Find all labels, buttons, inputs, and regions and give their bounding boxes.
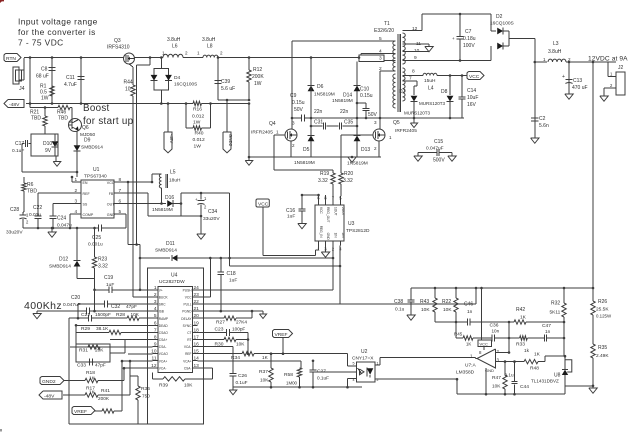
svg-text:10n: 10n: [492, 329, 500, 334]
svg-text:L3: L3: [553, 41, 559, 47]
svg-text:0.001u: 0.001u: [88, 242, 103, 248]
svg-text:BUCK: BUCK: [159, 295, 169, 299]
svg-text:C22: C22: [33, 205, 42, 211]
svg-text:1: 1: [543, 57, 546, 62]
svg-text:2: 2: [377, 378, 379, 382]
svg-text:Q3: Q3: [114, 38, 121, 44]
svg-text:5.6 uF: 5.6 uF: [221, 86, 235, 92]
svg-text:-48V: -48V: [9, 102, 20, 108]
svg-text:CSA-: CSA-: [184, 366, 192, 370]
svg-text:CT: CT: [187, 331, 191, 335]
svg-text:R6: R6: [27, 182, 34, 188]
svg-text:1W: 1W: [194, 144, 202, 150]
svg-text:CSAO: CSAO: [159, 331, 169, 335]
svg-text:TBD: TBD: [31, 116, 41, 122]
svg-text:18uH: 18uH: [169, 178, 181, 184]
svg-text:VCC: VCC: [319, 207, 323, 214]
svg-text:LM358D: LM358D: [456, 370, 475, 376]
svg-text:R12: R12: [253, 67, 262, 73]
svg-text:C31: C31: [314, 120, 323, 126]
svg-text:1N5819M: 1N5819M: [294, 160, 315, 166]
svg-text:12: 12: [412, 26, 418, 32]
svg-text:Boost: Boost: [83, 103, 110, 114]
svg-text:T1: T1: [384, 21, 390, 27]
svg-text:R40: R40: [195, 131, 204, 137]
svg-text:1uF: 1uF: [229, 278, 237, 284]
svg-text:D4: D4: [174, 75, 181, 81]
svg-text:0.012: 0.012: [193, 137, 206, 143]
svg-text:1N5819M: 1N5819M: [314, 92, 335, 98]
svg-text:J2: J2: [618, 65, 624, 71]
svg-text:0.15u: 0.15u: [292, 100, 305, 106]
svg-text:VCC: VCC: [480, 341, 489, 346]
svg-text:10K: 10K: [131, 312, 140, 317]
svg-text:C27: C27: [317, 369, 326, 375]
svg-text:10K: 10K: [421, 307, 430, 313]
svg-text:DELAY: DELAY: [181, 317, 192, 321]
svg-text:0.047uF: 0.047uF: [426, 146, 444, 152]
svg-text:0.012: 0.012: [192, 114, 205, 120]
svg-text:for start up: for start up: [83, 116, 134, 127]
svg-text:0.047uF: 0.047uF: [63, 302, 81, 308]
svg-text:50V: 50V: [368, 112, 378, 118]
svg-text:C38: C38: [394, 299, 403, 305]
svg-text:U1: U1: [93, 167, 100, 173]
svg-text:SS: SS: [83, 202, 88, 206]
svg-text:VCA+: VCA+: [183, 359, 192, 363]
svg-text:SMBD914: SMBD914: [81, 145, 103, 151]
svg-text:U4: U4: [171, 273, 178, 279]
svg-text:5.6n: 5.6n: [539, 123, 549, 129]
svg-text:TL1431DBVZ: TL1431DBVZ: [531, 379, 559, 384]
svg-text:10K: 10K: [443, 307, 452, 313]
svg-text:4: 4: [154, 306, 157, 312]
svg-text:3.32: 3.32: [343, 178, 353, 184]
svg-text:for the converter is: for the converter is: [18, 27, 96, 37]
svg-text:6: 6: [154, 320, 157, 326]
svg-text:R28: R28: [116, 312, 125, 318]
svg-text:VCC: VCC: [107, 181, 115, 185]
svg-text:GND2: GND2: [228, 134, 233, 147]
svg-text:REG_OUT: REG_OUT: [326, 207, 330, 222]
svg-text:0.1uF: 0.1uF: [236, 380, 248, 385]
svg-text:C9: C9: [290, 93, 297, 99]
svg-text:9: 9: [154, 342, 157, 348]
svg-text:UC2827DW: UC2827DW: [159, 279, 185, 285]
svg-text:U3: U3: [348, 221, 355, 227]
svg-text:27K4: 27K4: [236, 320, 247, 325]
svg-text:TBD: TBD: [27, 189, 37, 195]
svg-text:C2: C2: [539, 116, 546, 122]
svg-text:RTN: RTN: [6, 56, 16, 62]
svg-text:0.1u: 0.1u: [395, 307, 405, 313]
svg-text:C34: C34: [208, 209, 217, 215]
svg-text:19: 19: [194, 320, 200, 326]
svg-text:C15: C15: [434, 139, 443, 145]
svg-text:1K: 1K: [89, 376, 96, 381]
svg-text:2IN: 2IN: [341, 233, 345, 239]
svg-text:IRFS4310: IRFS4310: [107, 45, 130, 51]
svg-text:E32/6/20: E32/6/20: [374, 28, 394, 34]
svg-text:5: 5: [119, 209, 122, 214]
svg-text:3.8uH: 3.8uH: [167, 37, 181, 43]
svg-text:L4: L4: [428, 86, 434, 92]
svg-text:1K: 1K: [89, 390, 96, 395]
svg-text:R23: R23: [98, 257, 107, 263]
svg-text:SMBD914: SMBD914: [155, 248, 177, 254]
svg-text:8: 8: [412, 69, 415, 75]
svg-text:GND2: GND2: [42, 379, 56, 385]
svg-text:100V: 100V: [463, 43, 475, 49]
svg-text:2: 2: [220, 51, 223, 56]
svg-text:C11: C11: [66, 75, 75, 81]
svg-text:+: +: [452, 36, 455, 41]
svg-text:D5: D5: [303, 147, 310, 153]
svg-text:R58: R58: [284, 372, 293, 378]
svg-text:5: 5: [154, 313, 157, 319]
svg-text:R43: R43: [420, 299, 429, 305]
svg-text:68 uF: 68 uF: [36, 74, 49, 80]
svg-text:SYNC: SYNC: [183, 324, 193, 328]
svg-text:10uF: 10uF: [467, 95, 478, 101]
svg-text:50V: 50V: [294, 107, 304, 113]
svg-text:D12: D12: [59, 257, 68, 263]
svg-text:VREF: VREF: [74, 409, 87, 415]
svg-text:750: 750: [142, 394, 150, 399]
svg-text:3.8uH: 3.8uH: [202, 37, 216, 43]
svg-text:1: 1: [197, 51, 200, 56]
svg-text:1N5819M: 1N5819M: [332, 98, 353, 104]
svg-text:3: 3: [154, 299, 157, 305]
svg-text:1: 1: [377, 362, 379, 366]
svg-text:5K11: 5K11: [550, 310, 561, 316]
svg-text:15uH: 15uH: [424, 78, 436, 84]
svg-text:7: 7: [119, 188, 122, 193]
svg-text:3: 3: [374, 120, 377, 125]
svg-text:2: 2: [185, 51, 188, 56]
svg-text:C28: C28: [10, 207, 19, 213]
svg-text:J4: J4: [19, 86, 25, 92]
svg-text:L8: L8: [207, 44, 213, 50]
svg-text:D8: D8: [441, 89, 448, 95]
svg-text:D14: D14: [343, 93, 352, 99]
svg-text:C39: C39: [221, 79, 230, 85]
svg-text:0.1u: 0.1u: [505, 373, 515, 378]
svg-text:1: 1: [276, 130, 279, 135]
svg-text:33u20V: 33u20V: [6, 230, 23, 236]
svg-text:1uF: 1uF: [106, 282, 114, 288]
svg-text:1W: 1W: [254, 81, 262, 87]
svg-text:1W: 1W: [41, 96, 49, 102]
svg-text:R20: R20: [344, 171, 353, 177]
svg-text:25.5K: 25.5K: [596, 307, 609, 313]
svg-text:OUT: OUT: [107, 202, 115, 206]
svg-text:4: 4: [353, 378, 355, 382]
svg-text:16CQ100S: 16CQ100S: [490, 21, 514, 27]
svg-text:GND: GND: [326, 233, 330, 241]
svg-text:L6: L6: [172, 44, 178, 50]
svg-text:16V: 16V: [467, 102, 477, 108]
svg-text:R37: R37: [259, 369, 268, 375]
svg-text:5: 5: [353, 362, 355, 366]
svg-text:1M00: 1M00: [286, 381, 298, 386]
svg-text:R31: R31: [79, 348, 88, 354]
svg-text:38.1K: 38.1K: [96, 326, 109, 331]
svg-text:2: 2: [75, 188, 78, 193]
svg-text:1: 1: [389, 135, 392, 140]
svg-text:Input voltage range: Input voltage range: [18, 17, 98, 27]
svg-text:3.8uH: 3.8uH: [548, 49, 562, 55]
svg-text:CSA+: CSA+: [159, 338, 168, 342]
svg-text:D9: D9: [84, 138, 91, 144]
svg-text:EN: EN: [83, 181, 88, 185]
svg-text:C10: C10: [360, 87, 369, 93]
svg-text:VCC: VCC: [469, 74, 480, 80]
svg-text:REF: REF: [185, 352, 191, 356]
svg-text:0.15u: 0.15u: [360, 93, 373, 99]
svg-text:3: 3: [75, 199, 78, 204]
svg-text:3: 3: [379, 56, 382, 62]
svg-text:PUSH: PUSH: [183, 288, 193, 292]
svg-text:4.7uF: 4.7uF: [64, 82, 77, 88]
svg-text:IRFR2405: IRFR2405: [395, 128, 417, 134]
svg-text:RT: RT: [187, 338, 191, 342]
svg-text:D6: D6: [317, 84, 324, 90]
svg-text:C46: C46: [464, 302, 473, 308]
svg-text:400Khz: 400Khz: [24, 300, 62, 312]
svg-text:8: 8: [119, 177, 122, 182]
svg-text:R47: R47: [492, 375, 501, 381]
svg-text:0.01u: 0.01u: [29, 212, 41, 218]
svg-text:RAMP: RAMP: [159, 317, 168, 321]
svg-text:47pF: 47pF: [95, 363, 106, 368]
svg-text:MURS120T3: MURS120T3: [404, 111, 431, 116]
svg-text:R35: R35: [598, 345, 607, 351]
svg-text:+: +: [195, 197, 198, 202]
svg-text:1N5819M: 1N5819M: [347, 161, 368, 167]
svg-text:10K: 10K: [184, 383, 193, 388]
svg-text:20K: 20K: [95, 348, 104, 353]
svg-text:C7: C7: [465, 29, 472, 35]
svg-text:R19: R19: [320, 171, 329, 177]
svg-text:1: 1: [75, 177, 78, 182]
svg-text:2: 2: [154, 292, 157, 298]
svg-text:1K: 1K: [262, 355, 269, 360]
svg-text:200K: 200K: [252, 74, 264, 80]
svg-text:500V: 500V: [433, 158, 445, 164]
svg-text:9V: 9V: [45, 148, 52, 154]
svg-text:C23: C23: [215, 327, 224, 333]
svg-text:R32: R32: [551, 301, 560, 307]
svg-text:REF: REF: [83, 192, 91, 196]
svg-text:VCA-: VCA-: [184, 345, 192, 349]
svg-text:CNY17=X: CNY17=X: [352, 356, 374, 362]
svg-text:47pF: 47pF: [126, 304, 137, 310]
svg-text:0.1uF: 0.1uF: [317, 376, 329, 381]
svg-text:16CQ100S: 16CQ100S: [174, 82, 197, 87]
svg-text:3.32: 3.32: [98, 264, 108, 270]
svg-text:MURS120T3: MURS120T3: [419, 101, 446, 106]
svg-text:C14: C14: [467, 88, 476, 94]
svg-text:1IN: 1IN: [334, 233, 338, 239]
svg-text:7: 7: [154, 327, 157, 333]
svg-text:TBD: TBD: [58, 116, 68, 122]
svg-text:4: 4: [75, 209, 78, 214]
svg-text:C33: C33: [77, 363, 86, 369]
svg-text:R44: R44: [124, 80, 133, 86]
svg-text:R39: R39: [159, 383, 168, 389]
svg-text:IRFR2405: IRFR2405: [251, 130, 273, 136]
svg-text:R29: R29: [81, 326, 90, 332]
svg-text:REG_IN: REG_IN: [319, 226, 323, 239]
svg-text:C32: C32: [111, 304, 120, 310]
svg-text:R16: R16: [193, 107, 202, 113]
svg-text:R33: R33: [516, 342, 525, 348]
svg-text:C13: C13: [573, 78, 582, 84]
svg-text:22n: 22n: [340, 109, 349, 115]
svg-text:SRC: SRC: [159, 303, 166, 307]
svg-text:VCC: VCC: [258, 201, 269, 207]
svg-text:C26: C26: [238, 373, 247, 379]
svg-text:DEAD: DEAD: [159, 324, 169, 328]
svg-text:C16: C16: [286, 208, 295, 214]
svg-text:1n: 1n: [545, 329, 551, 334]
svg-text:470 uF: 470 uF: [572, 85, 588, 91]
svg-text:SMBD914: SMBD914: [49, 264, 71, 270]
svg-text:C19: C19: [104, 275, 113, 281]
svg-text:VCA+: VCA+: [159, 359, 168, 363]
svg-text:TPS2812D: TPS2812D: [346, 228, 370, 234]
svg-text:D7: D7: [399, 89, 406, 95]
svg-text:+: +: [562, 74, 565, 80]
svg-text:TPS67340: TPS67340: [84, 174, 107, 180]
svg-text:ISB: ISB: [159, 310, 164, 314]
svg-text:FB: FB: [109, 192, 114, 196]
svg-text:C18: C18: [227, 271, 236, 277]
svg-text:Q6: Q6: [82, 125, 89, 131]
svg-text:PULL: PULL: [184, 303, 192, 307]
svg-text:R26: R26: [598, 299, 607, 305]
svg-text:U7:A: U7:A: [465, 363, 476, 369]
svg-text:10K: 10K: [260, 378, 269, 383]
svg-text:COMP: COMP: [83, 213, 94, 217]
svg-text:0.18u: 0.18u: [463, 36, 476, 42]
svg-text:VCAO: VCAO: [159, 352, 169, 356]
svg-text:R42: R42: [516, 307, 525, 313]
svg-text:2: 2: [374, 146, 377, 151]
svg-text:33u20V: 33u20V: [203, 216, 220, 222]
svg-text:D11: D11: [166, 241, 175, 247]
svg-text:GND: GND: [107, 213, 115, 217]
svg-text:-48V: -48V: [169, 134, 174, 143]
svg-text:1W: 1W: [193, 120, 201, 126]
svg-text:6: 6: [119, 199, 122, 204]
svg-text:1OUT: 1OUT: [334, 207, 338, 216]
svg-text:100pF: 100pF: [232, 327, 245, 332]
svg-text:R27: R27: [216, 320, 225, 326]
svg-text:200K: 200K: [98, 396, 110, 401]
svg-text:D10: D10: [43, 141, 52, 147]
svg-text:3.32: 3.32: [318, 178, 328, 184]
svg-text:R36: R36: [141, 386, 150, 392]
svg-text:1k: 1k: [524, 348, 530, 353]
svg-text:10K: 10K: [236, 342, 245, 347]
svg-text:1K: 1K: [520, 315, 527, 321]
svg-text:10: 10: [125, 87, 131, 93]
svg-text:U2: U2: [361, 349, 368, 355]
svg-text:0.125W: 0.125W: [596, 314, 612, 319]
svg-text:VCC: VCC: [185, 295, 192, 299]
svg-text:C35: C35: [344, 120, 353, 126]
svg-text:C20: C20: [71, 295, 80, 301]
svg-text:D13: D13: [361, 147, 370, 153]
svg-text:C44: C44: [520, 384, 529, 390]
svg-text:1N5819M: 1N5819M: [152, 207, 173, 213]
svg-text:2.49K: 2.49K: [596, 353, 609, 359]
svg-text:C24: C24: [57, 216, 66, 222]
svg-text:CSA-: CSA-: [159, 345, 167, 349]
svg-text:10K: 10K: [492, 384, 501, 389]
svg-text:PGND: PGND: [182, 310, 192, 314]
svg-text:1: 1: [154, 285, 157, 291]
svg-text:7 - 75 VDC: 7 - 75 VDC: [18, 38, 64, 48]
svg-text:8: 8: [154, 334, 157, 340]
svg-text:R48: R48: [530, 366, 539, 372]
svg-text:R34: R34: [231, 355, 240, 361]
svg-text:R22: R22: [442, 299, 451, 305]
svg-text:2OUT: 2OUT: [341, 207, 345, 216]
svg-text:Q4: Q4: [269, 121, 276, 127]
svg-text:L5: L5: [170, 170, 176, 176]
svg-text:R45: R45: [454, 332, 463, 337]
svg-text:-48V: -48V: [44, 393, 55, 399]
svg-text:1500pF: 1500pF: [95, 312, 111, 317]
svg-text:1uF: 1uF: [287, 214, 295, 220]
svg-text:C25: C25: [92, 235, 101, 241]
svg-text:V+: V+: [159, 288, 163, 292]
svg-text:C21: C21: [81, 312, 90, 318]
svg-text:1K: 1K: [466, 342, 471, 347]
svg-text:C8: C8: [41, 67, 48, 73]
svg-text:1n: 1n: [467, 309, 473, 315]
svg-text:R41: R41: [101, 388, 110, 394]
svg-text:VCA-: VCA-: [159, 366, 167, 370]
svg-text:D2: D2: [496, 14, 503, 20]
svg-text:VREF: VREF: [275, 332, 288, 338]
svg-text:22n: 22n: [314, 109, 323, 115]
svg-text:2: 2: [292, 143, 295, 148]
svg-text:1K: 1K: [534, 352, 541, 358]
svg-text:Q5: Q5: [393, 120, 400, 126]
